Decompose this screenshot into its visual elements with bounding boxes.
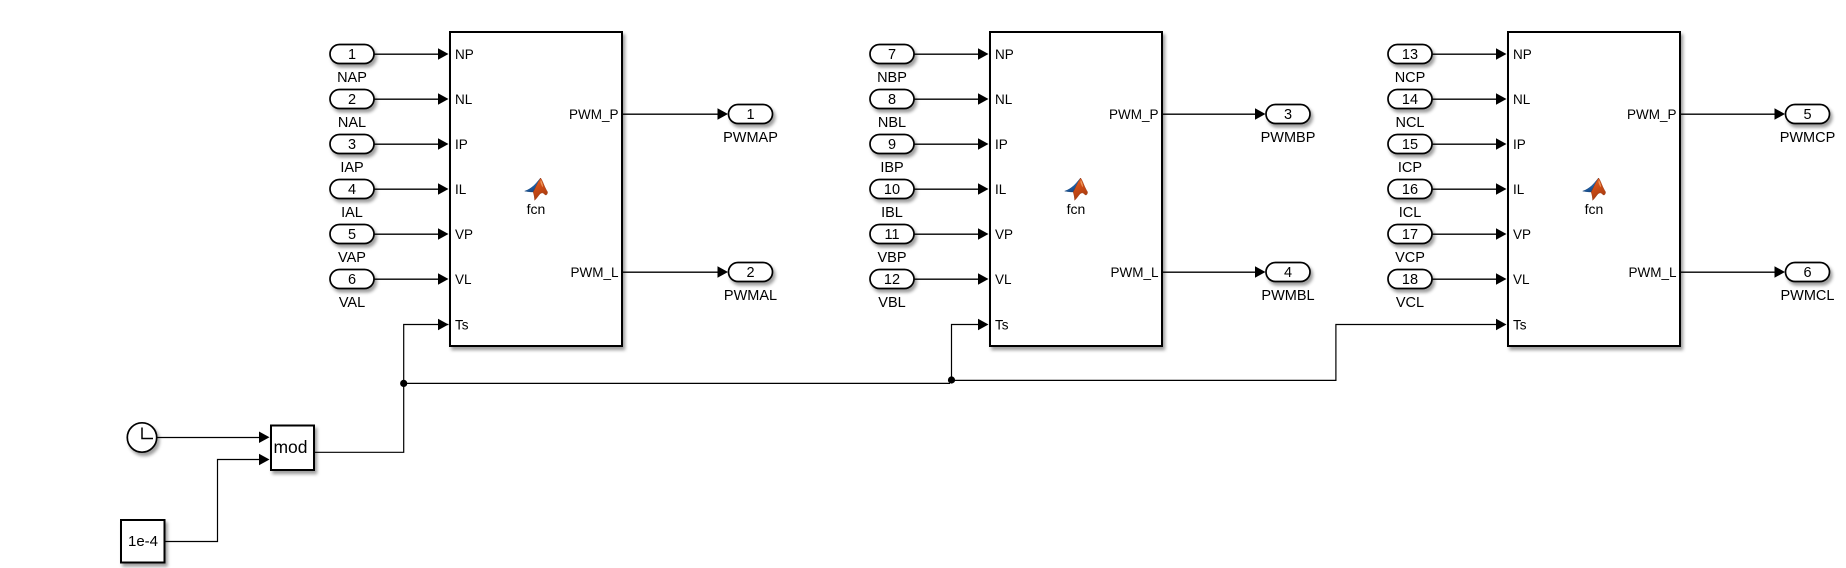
wire B.PWM to outport 4 (1162, 271, 1256, 273)
svg-text:IL: IL (455, 182, 467, 197)
wire clock to mod input 1 (158, 437, 261, 439)
svg-text:IAP: IAP (340, 160, 363, 176)
svg-text:PWM_P: PWM_P (569, 107, 619, 122)
wire inport 2 to A.NL (374, 98, 440, 100)
wire inport 3 to A.IP (374, 143, 440, 145)
wire inport 16 to C.IL (1432, 188, 1498, 190)
svg-text:5: 5 (1803, 107, 1811, 123)
svg-text:VL: VL (995, 272, 1012, 287)
svg-text:VBP: VBP (877, 250, 906, 266)
math function block mod (271, 426, 314, 471)
svg-text:1: 1 (746, 107, 754, 123)
svg-text:IBL: IBL (881, 205, 903, 221)
svg-text:IP: IP (995, 137, 1008, 152)
svg-text:IAL: IAL (341, 205, 363, 221)
svg-text:NAL: NAL (338, 115, 366, 131)
wire Ts bus segment 1 (404, 382, 951, 384)
wire mod output riser to Ts bus (314, 325, 449, 453)
svg-text:17: 17 (1402, 227, 1418, 243)
svg-text:VL: VL (455, 272, 472, 287)
inport block 17 (1388, 225, 1432, 244)
inport block 4 (330, 180, 374, 199)
wire inport 10 to B.IL (914, 188, 980, 190)
inport block 3 (330, 135, 374, 154)
svg-text:IP: IP (1513, 137, 1526, 152)
wire inport 14 to C.NL (1432, 98, 1498, 100)
svg-text:fcn: fcn (1067, 201, 1086, 217)
outport block 6 (1786, 263, 1830, 282)
svg-text:IL: IL (995, 182, 1007, 197)
svg-text:8: 8 (888, 92, 896, 108)
svg-text:14: 14 (1402, 92, 1418, 108)
wire inport 15 to C.IP (1432, 143, 1498, 145)
outport block 2 (729, 263, 773, 282)
inport block 16 (1388, 180, 1432, 199)
svg-text:VCL: VCL (1396, 295, 1424, 311)
svg-text:3: 3 (1284, 107, 1292, 123)
svg-text:VAP: VAP (338, 250, 366, 266)
svg-text:PWM_L: PWM_L (1110, 265, 1159, 280)
svg-text:3: 3 (348, 137, 356, 153)
inport block 15 (1388, 135, 1432, 154)
block B MATLAB logo icon (1065, 178, 1088, 200)
svg-text:NP: NP (455, 47, 474, 62)
inport block 13 (1388, 45, 1432, 64)
svg-text:PWM_L: PWM_L (570, 265, 619, 280)
inport block 14 (1388, 90, 1432, 109)
inport block 11 (870, 225, 914, 244)
wire inport 9 to B.IP (914, 143, 980, 145)
svg-text:VL: VL (1513, 272, 1530, 287)
svg-text:6: 6 (348, 272, 356, 288)
svg-text:11: 11 (884, 227, 899, 243)
wire inport 17 to C.VP (1432, 233, 1498, 235)
svg-text:Ts: Ts (995, 318, 1009, 333)
wire Ts branch to block B (952, 325, 980, 381)
svg-text:PWM_P: PWM_P (1109, 107, 1159, 122)
inport block 9 (870, 135, 914, 154)
svg-text:13: 13 (1402, 47, 1418, 63)
wire A.PWM to outport 1 (622, 113, 719, 115)
wire C.PWM to outport 6 (1680, 271, 1776, 273)
svg-text:NCL: NCL (1395, 115, 1424, 131)
wire inport 4 to A.IL (374, 188, 440, 190)
svg-text:PWM_L: PWM_L (1628, 265, 1677, 280)
svg-text:ICP: ICP (1398, 160, 1422, 176)
wire inport 5 to A.VP (374, 233, 440, 235)
svg-text:7: 7 (888, 47, 896, 63)
svg-text:IP: IP (455, 137, 468, 152)
svg-text:PWMCP: PWMCP (1780, 130, 1836, 146)
wire inport 13 to C.NP (1432, 53, 1498, 55)
svg-text:NP: NP (1513, 47, 1532, 62)
svg-text:VAL: VAL (339, 295, 365, 311)
outport block 5 (1786, 105, 1830, 124)
svg-text:4: 4 (348, 182, 356, 198)
svg-text:VP: VP (1513, 227, 1531, 242)
svg-text:PWMAL: PWMAL (724, 288, 777, 304)
svg-text:18: 18 (1402, 272, 1418, 288)
svg-text:1: 1 (348, 47, 356, 63)
clock hands (142, 428, 153, 439)
wire B.PWM to outport 3 (1162, 113, 1256, 115)
block A MATLAB logo icon (525, 178, 548, 200)
svg-text:PWMAP: PWMAP (723, 130, 778, 146)
junction node 1 (400, 380, 407, 387)
wire C.PWM to outport 5 (1680, 113, 1776, 115)
wire Ts bus segment 2 to block C (952, 325, 1498, 381)
block C MATLAB logo icon (1583, 178, 1606, 200)
svg-text:VP: VP (995, 227, 1013, 242)
outport block 3 (1266, 105, 1310, 124)
inport block 1 (330, 45, 374, 64)
MATLAB Function block A: subsystem rectangle (450, 32, 622, 346)
inport block 2 (330, 90, 374, 109)
svg-text:IBP: IBP (880, 160, 903, 176)
svg-text:1e-4: 1e-4 (128, 533, 158, 550)
MATLAB Function block B: subsystem rectangle (990, 32, 1162, 346)
inport block 10 (870, 180, 914, 199)
svg-text:15: 15 (1402, 137, 1418, 153)
svg-text:IL: IL (1513, 182, 1525, 197)
outport block 4 (1266, 263, 1310, 282)
wire inport 1 to A.NP (374, 53, 440, 55)
svg-text:ICL: ICL (1399, 205, 1422, 221)
inport block 18 (1388, 270, 1432, 289)
svg-text:NL: NL (995, 92, 1013, 107)
inport block 7 (870, 45, 914, 64)
svg-text:PWMBL: PWMBL (1261, 288, 1314, 304)
constant block 1e-4 (121, 520, 165, 563)
svg-text:NBP: NBP (877, 70, 907, 86)
svg-text:5: 5 (348, 227, 356, 243)
svg-text:Ts: Ts (1513, 318, 1527, 333)
svg-text:VCP: VCP (1395, 250, 1425, 266)
svg-text:10: 10 (884, 182, 900, 198)
MATLAB Function block C: subsystem rectangle (1508, 32, 1680, 346)
svg-text:VP: VP (455, 227, 473, 242)
svg-text:NL: NL (455, 92, 473, 107)
svg-text:fcn: fcn (1585, 201, 1604, 217)
svg-text:NAP: NAP (337, 70, 367, 86)
svg-text:mod: mod (273, 437, 307, 457)
inport block 5 (330, 225, 374, 244)
wire 1e-4 to mod input 2 (165, 460, 261, 542)
outport block 1 (729, 105, 773, 124)
inport block 8 (870, 90, 914, 109)
svg-text:NP: NP (995, 47, 1014, 62)
clock block (127, 423, 156, 452)
svg-text:NBL: NBL (878, 115, 906, 131)
svg-text:PWM_P: PWM_P (1627, 107, 1677, 122)
svg-text:2: 2 (746, 265, 754, 281)
svg-text:2: 2 (348, 92, 356, 108)
wire inport 18 to C.VL (1432, 278, 1498, 280)
svg-text:NL: NL (1513, 92, 1531, 107)
svg-text:PWMBP: PWMBP (1261, 130, 1316, 146)
svg-text:Ts: Ts (455, 318, 469, 333)
inport block 12 (870, 270, 914, 289)
svg-text:PWMCL: PWMCL (1781, 288, 1835, 304)
svg-text:12: 12 (884, 272, 900, 288)
svg-text:NCP: NCP (1395, 70, 1426, 86)
svg-text:9: 9 (888, 137, 896, 153)
wire inport 12 to B.VL (914, 278, 980, 280)
wire A.PWM to outport 2 (622, 271, 719, 273)
svg-text:4: 4 (1284, 265, 1292, 281)
svg-text:16: 16 (1402, 182, 1418, 198)
wire inport 7 to B.NP (914, 53, 980, 55)
svg-text:VBL: VBL (878, 295, 905, 311)
wire inport 11 to B.VP (914, 233, 980, 235)
svg-text:6: 6 (1803, 265, 1811, 281)
junction node 2 (948, 376, 955, 383)
svg-text:fcn: fcn (527, 201, 546, 217)
wire inport 6 to A.VL (374, 278, 440, 280)
inport block 6 (330, 270, 374, 289)
wire inport 8 to B.NL (914, 98, 980, 100)
